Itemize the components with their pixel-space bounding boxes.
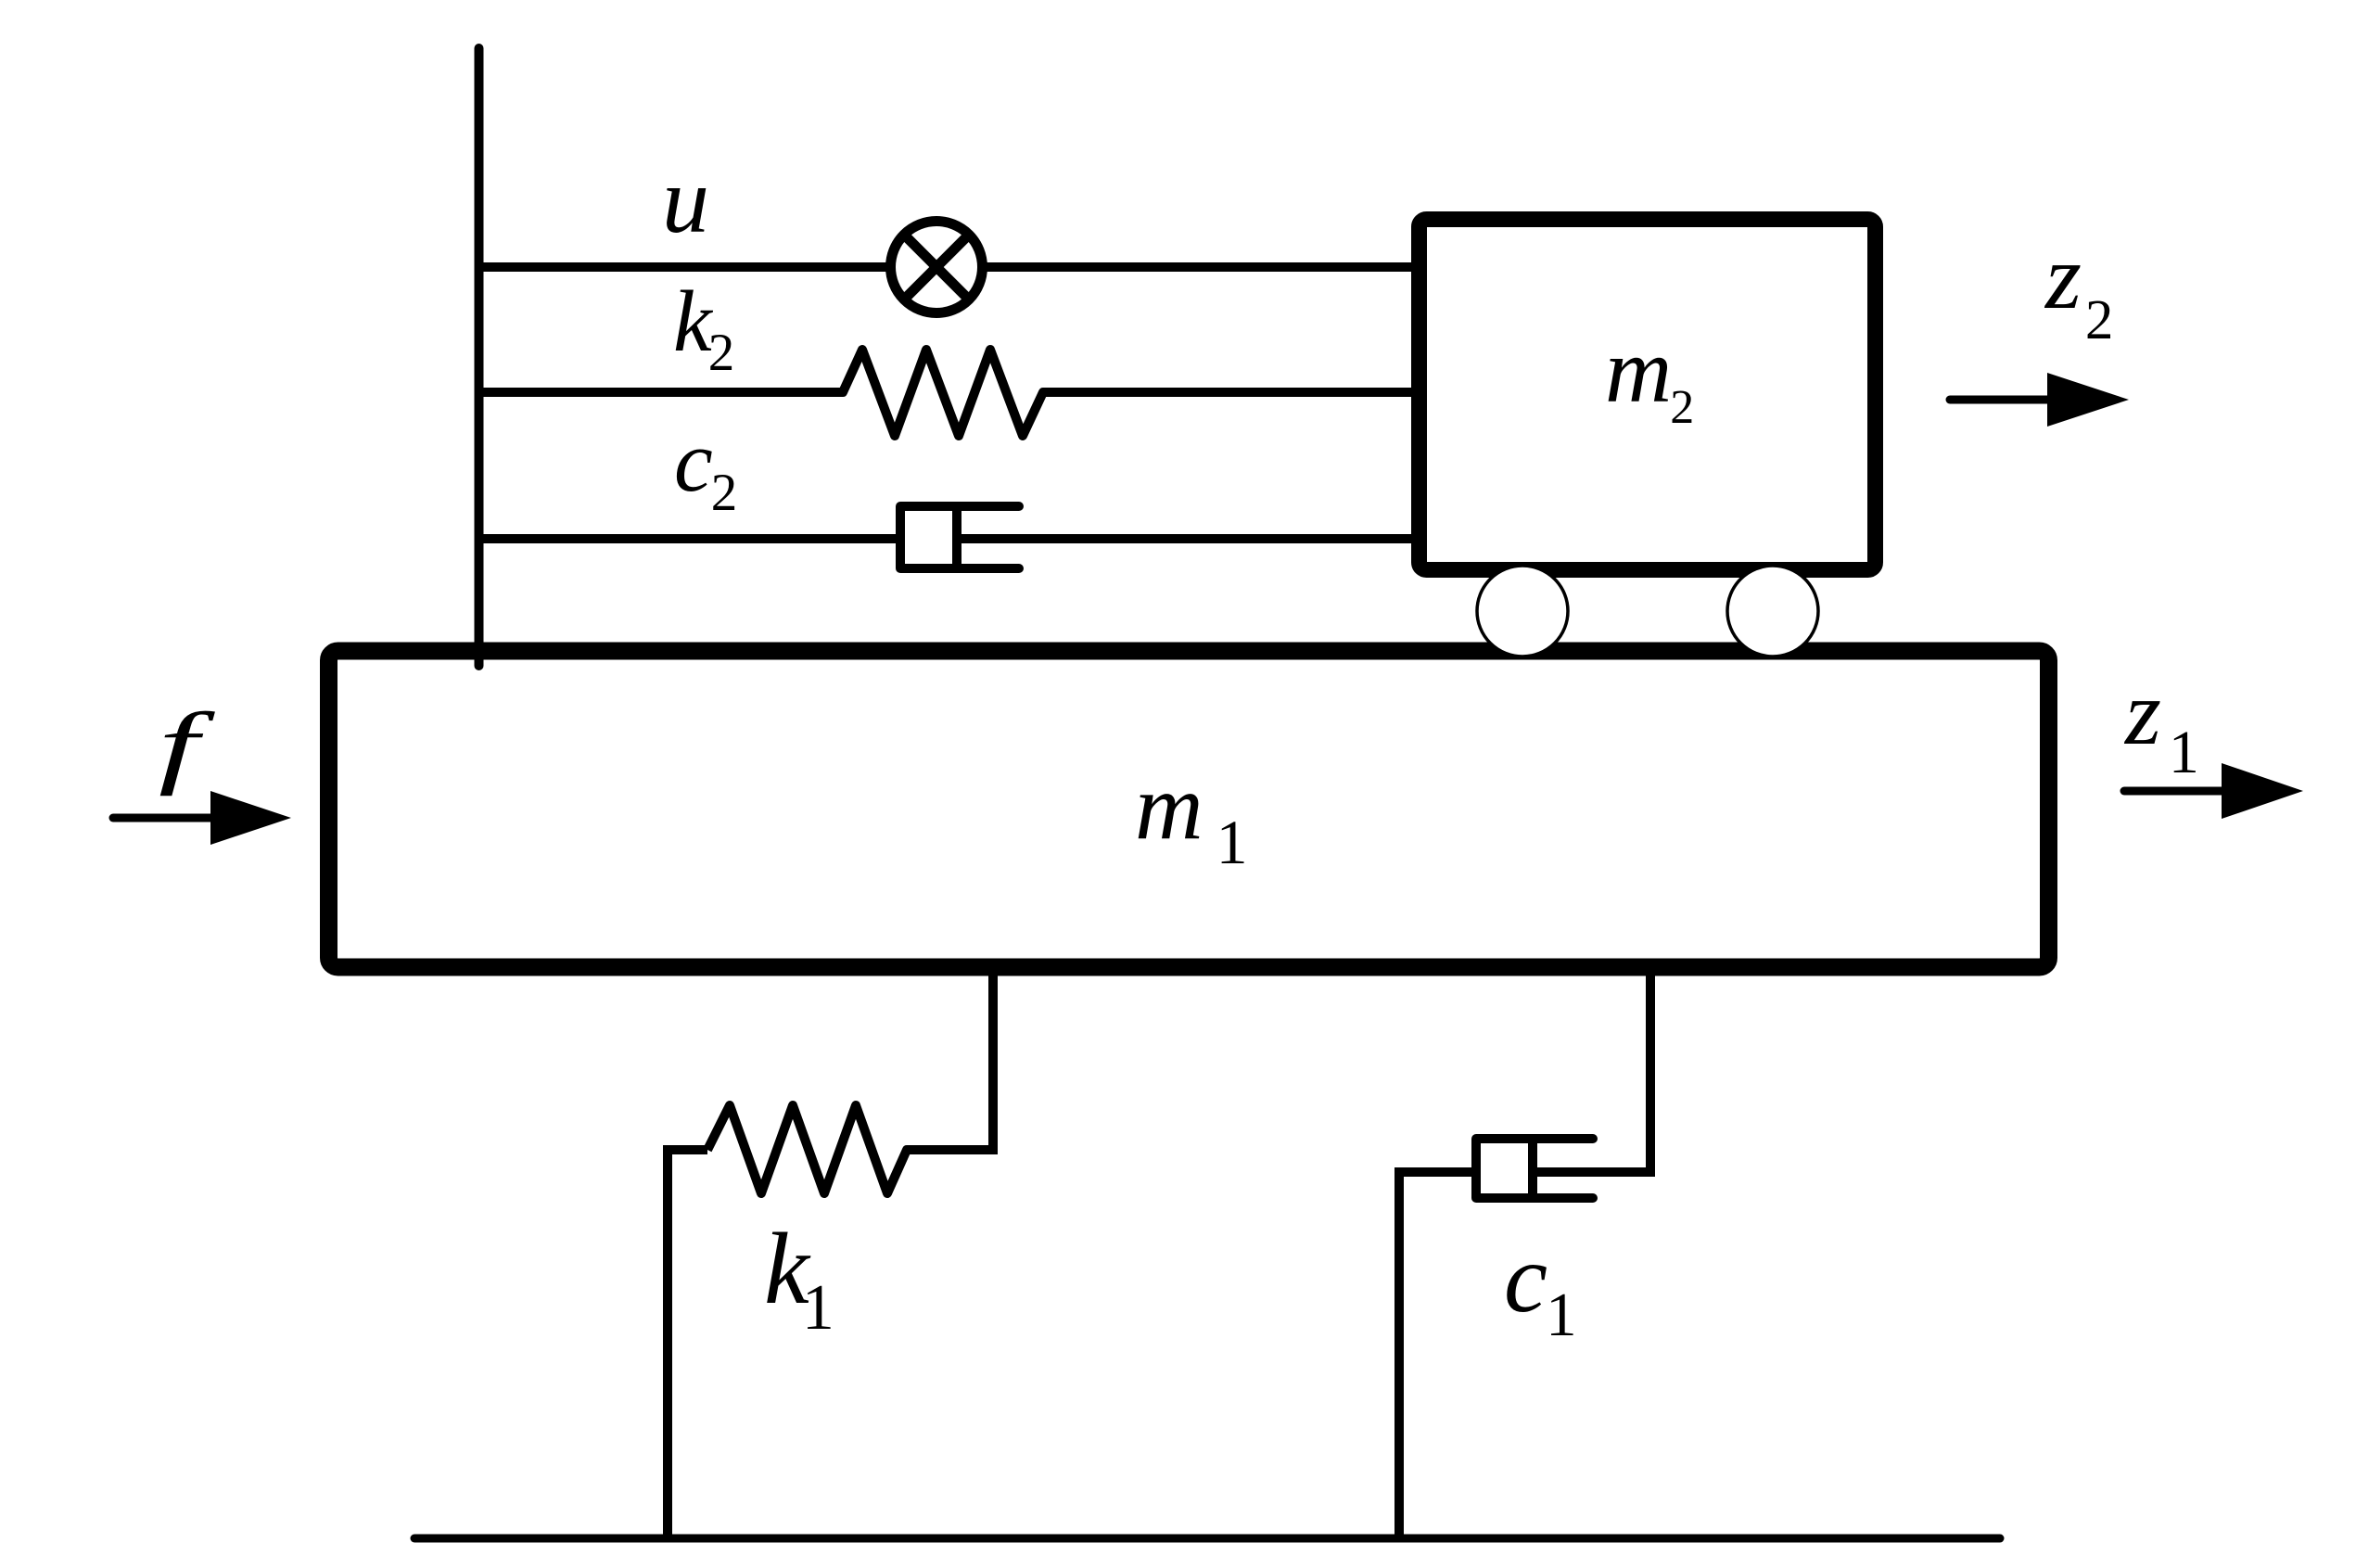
actuator u cross bbox=[906, 236, 967, 298]
spring k1 bbox=[707, 1105, 998, 1193]
wire c2 left bbox=[476, 534, 900, 543]
arrow z2 bbox=[1950, 373, 2129, 427]
arrow z1 bbox=[2124, 763, 2303, 819]
mass m1 box bbox=[329, 651, 2049, 967]
damper c1 rod bbox=[1533, 1167, 1655, 1177]
actuator u circle bbox=[891, 222, 983, 313]
damper c1 riser to m1 bbox=[1646, 968, 1655, 1177]
damper c1 piston plate bbox=[1528, 1141, 1537, 1195]
wheel right under m2 bbox=[1727, 566, 1818, 657]
spring k2 with wires bbox=[476, 350, 1423, 436]
mass m2 box bbox=[1420, 220, 1876, 570]
svg-text:u: u bbox=[662, 148, 709, 253]
wheel left under m2 bbox=[1477, 566, 1568, 657]
arrow f bbox=[113, 791, 291, 845]
wire u right bbox=[985, 262, 1423, 272]
damper c1 cylinder bbox=[1476, 1139, 1593, 1198]
ground line bbox=[414, 1535, 2000, 1543]
wall line bbox=[475, 48, 484, 666]
spring k1 right riser to m1 bbox=[988, 968, 998, 1154]
spring k1 left riser bbox=[668, 1150, 707, 1538]
wire u left bbox=[476, 262, 888, 272]
damper c1 left riser bbox=[1399, 1172, 1476, 1538]
damper c2 piston plate bbox=[952, 509, 962, 566]
damper c2 rod bbox=[957, 534, 1423, 543]
damper c2 cylinder bbox=[900, 506, 1019, 568]
